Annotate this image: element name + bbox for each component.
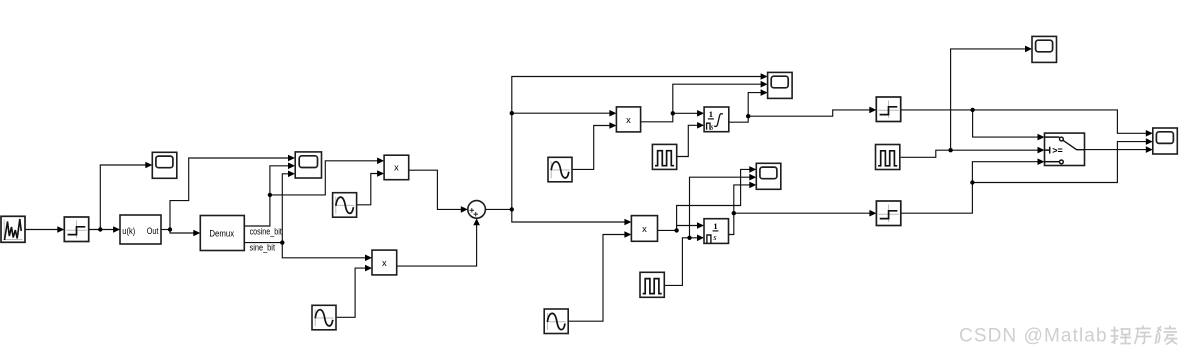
wire junction H to Scope6 input 1 — [973, 110, 1147, 133]
Sine3 source — [548, 157, 572, 182]
junction dot L after subsystem Out — [168, 227, 172, 231]
wire Sine4 to Product4 input 2 — [569, 235, 625, 322]
svg-text:x: x — [642, 224, 647, 234]
Product2 — [372, 250, 397, 275]
arrowhead into Product1 input 1 — [377, 158, 384, 165]
noise source block — [1, 216, 25, 242]
junction dot D at Integrator1 output — [746, 114, 750, 118]
relay R0 — [64, 217, 88, 242]
wire junction A down to Product4 input 1 — [512, 209, 625, 222]
arrowhead into Scope4 input 2 — [749, 174, 756, 181]
arrowhead into Scope3 input 2 — [761, 81, 768, 88]
Scope6 — [1153, 128, 1178, 154]
wire noise source to relay R0 — [25, 229, 58, 231]
arrowhead into Scope3 input 3 — [761, 89, 768, 96]
wire Integrator1 output to Relay1 — [729, 110, 870, 122]
junction dot J at Relay2 output — [970, 180, 974, 184]
Sine4 source — [544, 309, 568, 334]
wire junction A up through junction B to Scope3 input 1 — [512, 77, 761, 210]
svg-text:sine_bit: sine_bit — [250, 242, 276, 252]
Scope3 — [768, 72, 793, 98]
Relay1 — [876, 97, 900, 122]
junction dot H at Relay1 output — [970, 108, 974, 112]
wire node to Scope2 input 2 — [270, 166, 289, 195]
wire Sine2 to Product2 input 2 — [337, 268, 366, 317]
arrowhead into Relay1 — [869, 107, 876, 114]
junction dot A at Sum output — [510, 207, 514, 211]
Demux block — [200, 216, 244, 251]
wire junction G up to Scope4 input 3 — [734, 185, 750, 213]
arrowhead into Scope2 input 3 — [288, 171, 295, 178]
wire Product1 output to Sum — [409, 170, 462, 209]
arrowhead into Scope6 input 2 — [1146, 138, 1153, 145]
wire node down to Product2 input 1 — [282, 243, 365, 258]
Sine2 source — [312, 305, 336, 330]
Relay2 — [876, 201, 900, 226]
arrowhead into Switch input 1 — [1038, 134, 1045, 141]
watermark CJK glyph 序 (drawn strokes) — [1135, 326, 1152, 345]
arrowhead into Scope5 — [1025, 46, 1032, 53]
junction dot M on cosine_bit net — [268, 193, 272, 197]
arrowhead into relay R0 — [57, 226, 64, 233]
wire junction H down to Switch input 1 — [973, 110, 1038, 137]
wire relay R0 to subsystem input with junction — [89, 229, 114, 231]
Pulse1 generator — [652, 144, 676, 169]
arrowhead into Scope4 input 3 — [749, 182, 756, 189]
wire junction G to Relay2 input — [734, 212, 870, 214]
wire junction J up to Switch input 3 — [972, 162, 1038, 183]
wire Sum output to junction A — [485, 208, 511, 210]
wire junction B to Product3 input 1 — [512, 112, 610, 114]
junction dot G at Integrator2 output — [732, 211, 736, 215]
Pulse3 generator — [876, 145, 900, 170]
wire Sine3 to Product3 input 2 — [573, 126, 610, 170]
svg-text:Demux: Demux — [209, 228, 234, 239]
wire junction C up to Scope3 input 2 — [673, 84, 761, 113]
junction dot E at Integrator2 reset net — [687, 236, 691, 240]
Product3 — [616, 107, 640, 132]
Switch block — [1045, 133, 1085, 165]
wire node up to Scope2 input 3 — [282, 174, 288, 243]
junction dot F at Product4 output — [674, 228, 678, 232]
wire junction up to Scope1 — [100, 165, 146, 230]
junction dot C at Product3 output — [671, 111, 675, 115]
arrowhead into Sum left input — [461, 206, 468, 213]
arrowhead into Switch input 2 — [1038, 147, 1045, 154]
Integrator1 with reset — [704, 107, 729, 132]
svg-text:1: 1 — [713, 221, 717, 231]
svg-text:cosine_bit: cosine_bit — [250, 227, 283, 237]
wire Demux out1 cosine_bit to node — [244, 195, 270, 226]
arrowhead into Integrator1 input 1 — [697, 110, 704, 117]
Pulse2 generator — [640, 272, 664, 297]
wire junction F to Integrator2 input 1 — [677, 225, 698, 227]
arrowhead into Scope1 — [145, 162, 152, 169]
Scope5 — [1032, 36, 1057, 62]
wire Sine1 to Product1 input 2 — [356, 174, 378, 205]
wire Pulse2 to Integrator2 reset input — [664, 238, 697, 286]
Sine1 source — [333, 193, 357, 218]
wire Out junction up to Scope2 input 1 — [170, 158, 289, 230]
wire Relay1 output to junction H — [901, 109, 973, 111]
wire Demux out2 sine_bit to node — [244, 242, 282, 244]
arrowhead into Scope4 input 1 — [749, 166, 756, 173]
wire Pulse3 to junction I — [901, 150, 951, 157]
junction dot K after relay R0 — [98, 227, 102, 231]
arrowhead into Scope2 input 2 — [288, 163, 295, 170]
wire Pulse1 to Integrator1 reset input — [677, 125, 698, 156]
watermark CJK glyph 程 (drawn strokes) — [1111, 326, 1178, 345]
arrowhead into subsystem u(k) — [113, 226, 120, 233]
junction dot I on Pulse3 net — [948, 148, 952, 152]
Scope1 — [152, 152, 177, 178]
arrowhead into Product3 input 2 — [609, 122, 616, 129]
svg-text:Out: Out — [147, 226, 159, 236]
watermark CJK glyph 猿 (drawn strokes) — [1156, 326, 1178, 345]
wire junction J to Scope6 input 2 — [972, 142, 1146, 183]
svg-text:1: 1 — [709, 109, 713, 119]
svg-text:s: s — [710, 122, 713, 131]
wire junction D up to Scope3 input 3 — [748, 93, 761, 117]
junction dot B on carrier net to Product3 — [510, 111, 514, 115]
arrowhead into Scope3 input 1 — [761, 73, 768, 80]
wire junction E up to Scope4 input 2 — [690, 177, 750, 238]
wire junction I to Switch input 2 — [951, 149, 1038, 151]
wire Relay2 output to junction J — [901, 183, 973, 214]
Scope4 — [756, 163, 781, 189]
wire junction F up to Scope4 input 1 — [677, 169, 750, 230]
arrowhead into Integrator2 reset input — [697, 235, 704, 242]
svg-text:x: x — [394, 163, 399, 173]
arrowhead into Scope2 input 1 — [288, 155, 295, 162]
wire junction I up to Scope5 — [951, 49, 1025, 150]
junction dot N on sine_bit net — [280, 240, 284, 244]
arrowhead into Switch input 3 — [1038, 158, 1045, 165]
arrowhead into Scope6 input 1 — [1146, 130, 1153, 137]
wire junction C to Integrator1 input 1 — [673, 112, 698, 114]
Product4 — [631, 216, 657, 242]
svg-text:CSDN @Matlab: CSDN @Matlab — [959, 326, 1108, 347]
arrowhead into Product2 input 1 — [365, 254, 372, 261]
arrowhead into Integrator1 reset input — [697, 122, 704, 129]
arrowhead into Product1 input 2 — [377, 170, 384, 177]
svg-text:>=: >= — [1052, 145, 1063, 155]
arrowhead into Product4 input 2 — [624, 231, 631, 238]
Scope2 — [295, 152, 321, 178]
Product1 — [384, 155, 409, 180]
arrowhead into Product2 input 2 — [365, 265, 372, 272]
arrowhead into Product4 input 1 — [624, 219, 631, 226]
wire subsystem Out to junction — [161, 229, 170, 231]
Integrator2 with reset — [704, 219, 729, 244]
wire Integrator2 output to junction G — [729, 213, 734, 234]
subsystem u(k)/Out — [120, 215, 161, 244]
arrowhead into Demux — [193, 230, 200, 237]
Sum block — [468, 201, 486, 219]
wire Product2 output to Sum bottom — [397, 225, 477, 266]
wire Product4 output to junction F — [658, 229, 677, 231]
wire junction to Demux input — [170, 230, 194, 234]
arrowhead into Sum bottom input (pointing up) — [473, 218, 480, 225]
svg-text:x: x — [626, 115, 631, 125]
wire Product3 output to junction C — [641, 113, 673, 122]
arrowhead into Scope6 input 3 — [1146, 146, 1153, 153]
arrowhead into Product3 input 1 — [609, 110, 616, 117]
svg-text:u(k): u(k) — [122, 226, 135, 236]
svg-text:x: x — [382, 258, 387, 268]
arrowhead into Relay2 — [869, 210, 876, 217]
arrowhead into Integrator2 input 1 — [697, 222, 704, 229]
wire Switch output to Scope6 input 3 — [1085, 149, 1147, 151]
wire node to Product1 input 1 — [270, 161, 378, 195]
